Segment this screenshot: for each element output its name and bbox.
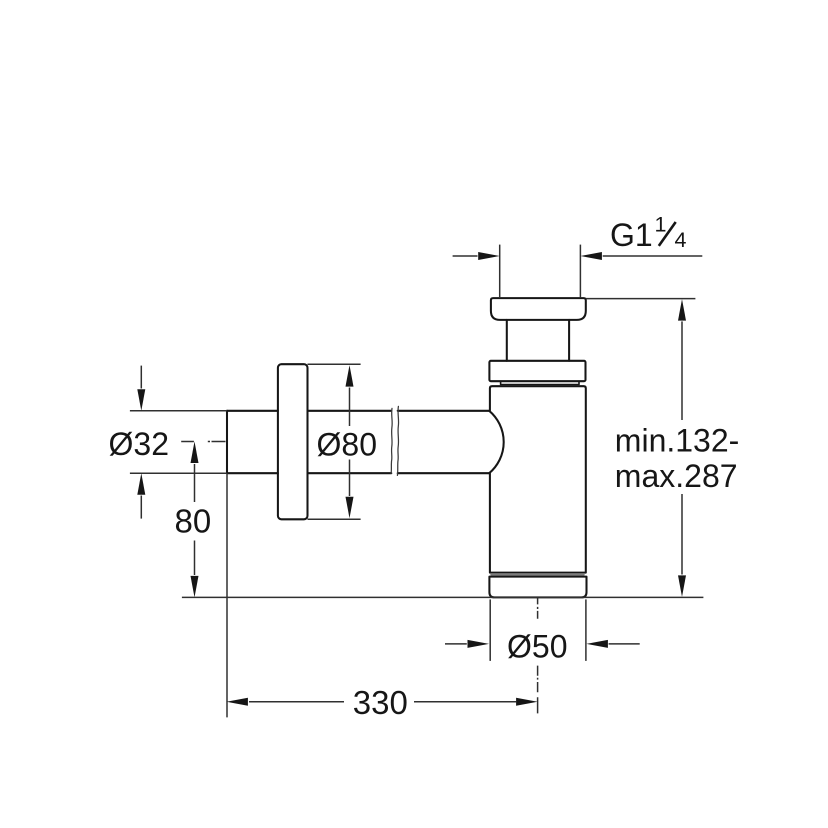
svg-text:min.132-: min.132- (615, 423, 740, 459)
G1 arrow left-pointing (580, 252, 602, 260)
svg-text:1: 1 (655, 213, 667, 237)
inlet pipe top edge (227, 410, 489, 412)
dia32 arrow up (137, 473, 145, 495)
svg-text:4: 4 (675, 228, 687, 252)
neck between flange and nut (507, 320, 569, 361)
dia50 left dimension segment (445, 643, 467, 645)
dia32 upper arrow tail (140, 366, 142, 389)
dim80 arrow down (191, 576, 199, 598)
dim80 line lower (194, 541, 196, 576)
pipe break squiggle right (397, 406, 398, 475)
body centerline lower (537, 666, 539, 714)
bottom cap (489, 577, 586, 598)
dim80 line upper (194, 464, 196, 502)
inlet pipe left end (226, 411, 228, 473)
top thread flange (491, 298, 586, 320)
svg-text:Ø32: Ø32 (109, 426, 169, 462)
G1 1/4 dimension line right segment (603, 255, 703, 257)
dia50 right extension line (585, 599, 587, 661)
cup body (490, 386, 586, 572)
dia50 arrow left-pointing (586, 640, 608, 648)
dim330 dimension line right segment (414, 701, 516, 703)
dia80 arrow up (346, 365, 354, 387)
G1 1/4 extension line left (499, 245, 501, 297)
body centerline upper (537, 598, 539, 619)
min-max arrow up (678, 299, 686, 321)
svg-text:Ø80: Ø80 (317, 427, 377, 463)
fraction slash (659, 222, 676, 246)
wall flange disc (278, 364, 308, 519)
svg-text:Ø50: Ø50 (507, 629, 567, 665)
dim330 arrow left-pointing (226, 698, 248, 706)
dia32 bottom extension line (130, 472, 227, 474)
dim330 dimension line left segment (249, 701, 344, 703)
dia32 arrow down (137, 389, 145, 411)
svg-text:330: 330 (353, 684, 408, 721)
dia80 dimension line upper (349, 388, 351, 427)
dia80 arrow down (346, 497, 354, 519)
G1 1/4 extension line right (579, 245, 581, 298)
svg-text:80: 80 (175, 503, 212, 540)
G1 arrow right-pointing (478, 252, 500, 260)
inlet pipe bottom edge (227, 472, 489, 474)
dim330 left extension line (226, 473, 228, 717)
dia80 bottom extension line (308, 518, 361, 520)
pipe rounded tip inside body (489, 411, 504, 473)
svg-text:max.287: max.287 (615, 458, 738, 494)
svg-text:G1: G1 (610, 217, 653, 253)
dim80 arrow up (191, 442, 199, 464)
min-max arrow down (678, 575, 686, 597)
min-max dimension line lower (681, 494, 683, 575)
G1 1/4 dimension line left segment (453, 255, 478, 257)
sliver of neck under nut (501, 381, 579, 384)
coupling nut (489, 361, 585, 381)
dia50 arrow right-pointing (468, 640, 490, 648)
dim330 arrow right-pointing (516, 698, 538, 706)
dia80 dimension line lower (349, 460, 351, 497)
min-max top extension line (586, 298, 696, 300)
dia32 centerline leader (181, 441, 225, 443)
dia32 lower arrow tail (140, 496, 142, 519)
wall baseline (182, 596, 704, 598)
bottom ring line (491, 574, 584, 576)
pipe break squiggle left (391, 408, 392, 473)
dia50 left extension line (489, 599, 491, 661)
dia80 top extension line (308, 363, 361, 365)
dia50 right dimension segment (609, 643, 640, 645)
min-max dimension line upper (681, 321, 683, 420)
dia32 top extension line (130, 410, 227, 412)
